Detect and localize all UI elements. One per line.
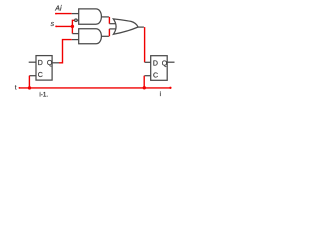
and-gate U1 inverted input bubble <box>77 19 79 21</box>
or-gate U3 output stub <box>138 26 144 28</box>
svg-text:i-1.: i-1. <box>39 91 48 98</box>
or-gate U3 input stub 1 <box>109 23 115 25</box>
or-gate U3 input stub 2 <box>109 28 116 30</box>
and-gate U1 input stub 1 <box>72 13 79 15</box>
wire S junction down to gate U2 input1 <box>71 26 73 33</box>
wire U1 out down to OR input1 <box>108 17 110 24</box>
FF1 D input stub (unconnected) <box>29 61 36 63</box>
wire S input <box>56 25 73 27</box>
svg-text:C: C <box>153 73 158 80</box>
and-gate U1 body <box>79 9 102 24</box>
wire FF1 C down to clock line <box>28 76 30 88</box>
svg-text:D: D <box>38 60 43 67</box>
FF2 C input stub <box>144 75 150 77</box>
svg-text:D: D <box>153 61 158 68</box>
wire FF2 C down to clock line <box>143 76 145 88</box>
svg-text:S: S <box>51 22 55 28</box>
svg-text:i: i <box>160 91 161 98</box>
flip-flop FF1 (bit i-1) body <box>36 56 52 81</box>
FF2 Q output stub <box>167 61 174 63</box>
node FF2 clock junction <box>143 86 146 89</box>
wire clock line <box>19 87 171 89</box>
node S junction <box>71 25 74 28</box>
and-gate U2 output stub <box>101 35 109 37</box>
and-gate U2 input stub 2 <box>72 39 79 41</box>
wire S junction up to bubble <box>72 20 74 26</box>
FF1 Q output stub <box>52 62 59 64</box>
FF1 C input stub <box>29 75 36 77</box>
svg-text:Q: Q <box>162 61 168 68</box>
wire OR out down to FF2 D <box>144 27 146 62</box>
wire Ai input <box>56 13 72 15</box>
or-gate U3 body <box>113 19 138 34</box>
svg-text:C: C <box>38 72 43 79</box>
flip-flop FF2 (bit i) body <box>151 56 168 81</box>
svg-text:Q: Q <box>47 60 53 67</box>
and-gate U1 output stub <box>101 16 109 18</box>
node FF1 clock junction <box>28 86 31 89</box>
wire U2 out up to OR input2 <box>108 29 110 36</box>
FF2 D input stub <box>145 61 151 63</box>
svg-text:t: t <box>15 86 17 92</box>
wire FF1 Q up to gate U2 input2 <box>59 40 72 63</box>
and-gate U2 body <box>79 29 102 44</box>
svg-text:Ai: Ai <box>54 6 62 13</box>
and-gate U2 input stub 1 <box>72 33 78 35</box>
